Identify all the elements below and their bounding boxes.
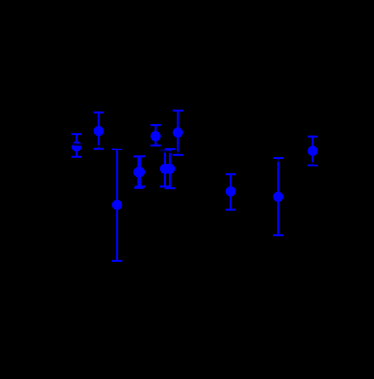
wire: error line P9 bbox=[277, 158, 279, 235]
cap: P7 top bbox=[173, 110, 183, 112]
wire: error line P5 bbox=[155, 125, 157, 145]
wire: error line P3 bbox=[116, 149, 118, 261]
errorbar point 9 (x=278.2) bbox=[273, 158, 283, 235]
marker P7 bbox=[173, 127, 183, 137]
cap: P4A bottom bbox=[135, 186, 145, 188]
errorbar point 5 (x=155.6) bbox=[150, 125, 160, 145]
marker P9 bbox=[273, 192, 283, 202]
errorbar point 7 (x=177.8) bbox=[173, 111, 183, 155]
wire: error line P8 bbox=[230, 174, 232, 210]
marker P8 bbox=[226, 186, 236, 196]
wire: error line P4B bbox=[137, 157, 139, 188]
errorbar point 4B (x=138.4, back) bbox=[133, 157, 143, 188]
wire: error line P6b bbox=[169, 149, 171, 188]
cap: P7 bottom bbox=[173, 154, 183, 156]
marker P6b bbox=[165, 164, 175, 174]
errorbar point 10 (x=312.7) bbox=[308, 137, 318, 166]
cap: P3 bottom bbox=[112, 260, 122, 262]
cap: P4B top bbox=[133, 156, 143, 158]
errorbar point 6a (x=165.0) bbox=[160, 151, 170, 187]
cap: P6a bottom bbox=[160, 186, 170, 188]
wire: error line P1 bbox=[76, 134, 78, 157]
cap: P5 top bbox=[150, 124, 160, 126]
cap: P9 bottom bbox=[273, 234, 283, 236]
cap: P10 top bbox=[308, 136, 318, 138]
cap: P6b bottom bbox=[165, 187, 175, 189]
marker P3 bbox=[112, 200, 122, 210]
wire: error line P6a bbox=[164, 151, 166, 187]
wire: error line P4A bbox=[139, 156, 141, 186]
cap: P8 bottom bbox=[226, 209, 236, 211]
wire: error line P2 bbox=[98, 113, 100, 149]
errorbar point 4A (x=139.9, front) bbox=[135, 156, 145, 186]
cap: P9 top bbox=[273, 157, 283, 159]
marker P2 bbox=[94, 126, 104, 136]
cap: P8 top bbox=[226, 173, 236, 175]
cap: P1 top bbox=[71, 133, 81, 135]
marker P5 bbox=[150, 131, 160, 141]
cap: P4A top bbox=[135, 155, 145, 157]
errorbar point 3 (x=117.1) bbox=[112, 149, 122, 261]
marker P6a bbox=[160, 164, 170, 174]
cap: P4B bottom bbox=[134, 187, 143, 189]
errorbar point 1 (x=76.6) bbox=[71, 134, 81, 157]
errorbar point 6b (x=169.9) bbox=[165, 149, 175, 188]
cap: P1 bottom bbox=[71, 156, 81, 158]
errorbar point 2 (x=98.7) bbox=[94, 113, 104, 149]
marker P4A bbox=[135, 167, 145, 177]
marker P10 bbox=[308, 146, 318, 156]
cap: P3 top bbox=[112, 148, 122, 150]
cap: P2 bottom bbox=[94, 148, 104, 150]
trend line (black, drawn on top; visible only where it crosses blue) bbox=[0, 138, 374, 168]
cap: P5 bottom bbox=[150, 145, 160, 147]
cap: P6b top bbox=[165, 148, 175, 150]
cap: P10 bottom bbox=[308, 164, 318, 166]
wire: error line P10 bbox=[312, 137, 314, 166]
errorbar point 8 (x=230.7) bbox=[226, 174, 236, 210]
cap: P6a top bbox=[160, 150, 170, 152]
wire: error line P7 bbox=[177, 111, 179, 155]
marker P1 bbox=[71, 141, 81, 151]
cap: P2 top bbox=[94, 112, 104, 114]
marker P4B bbox=[133, 167, 143, 177]
